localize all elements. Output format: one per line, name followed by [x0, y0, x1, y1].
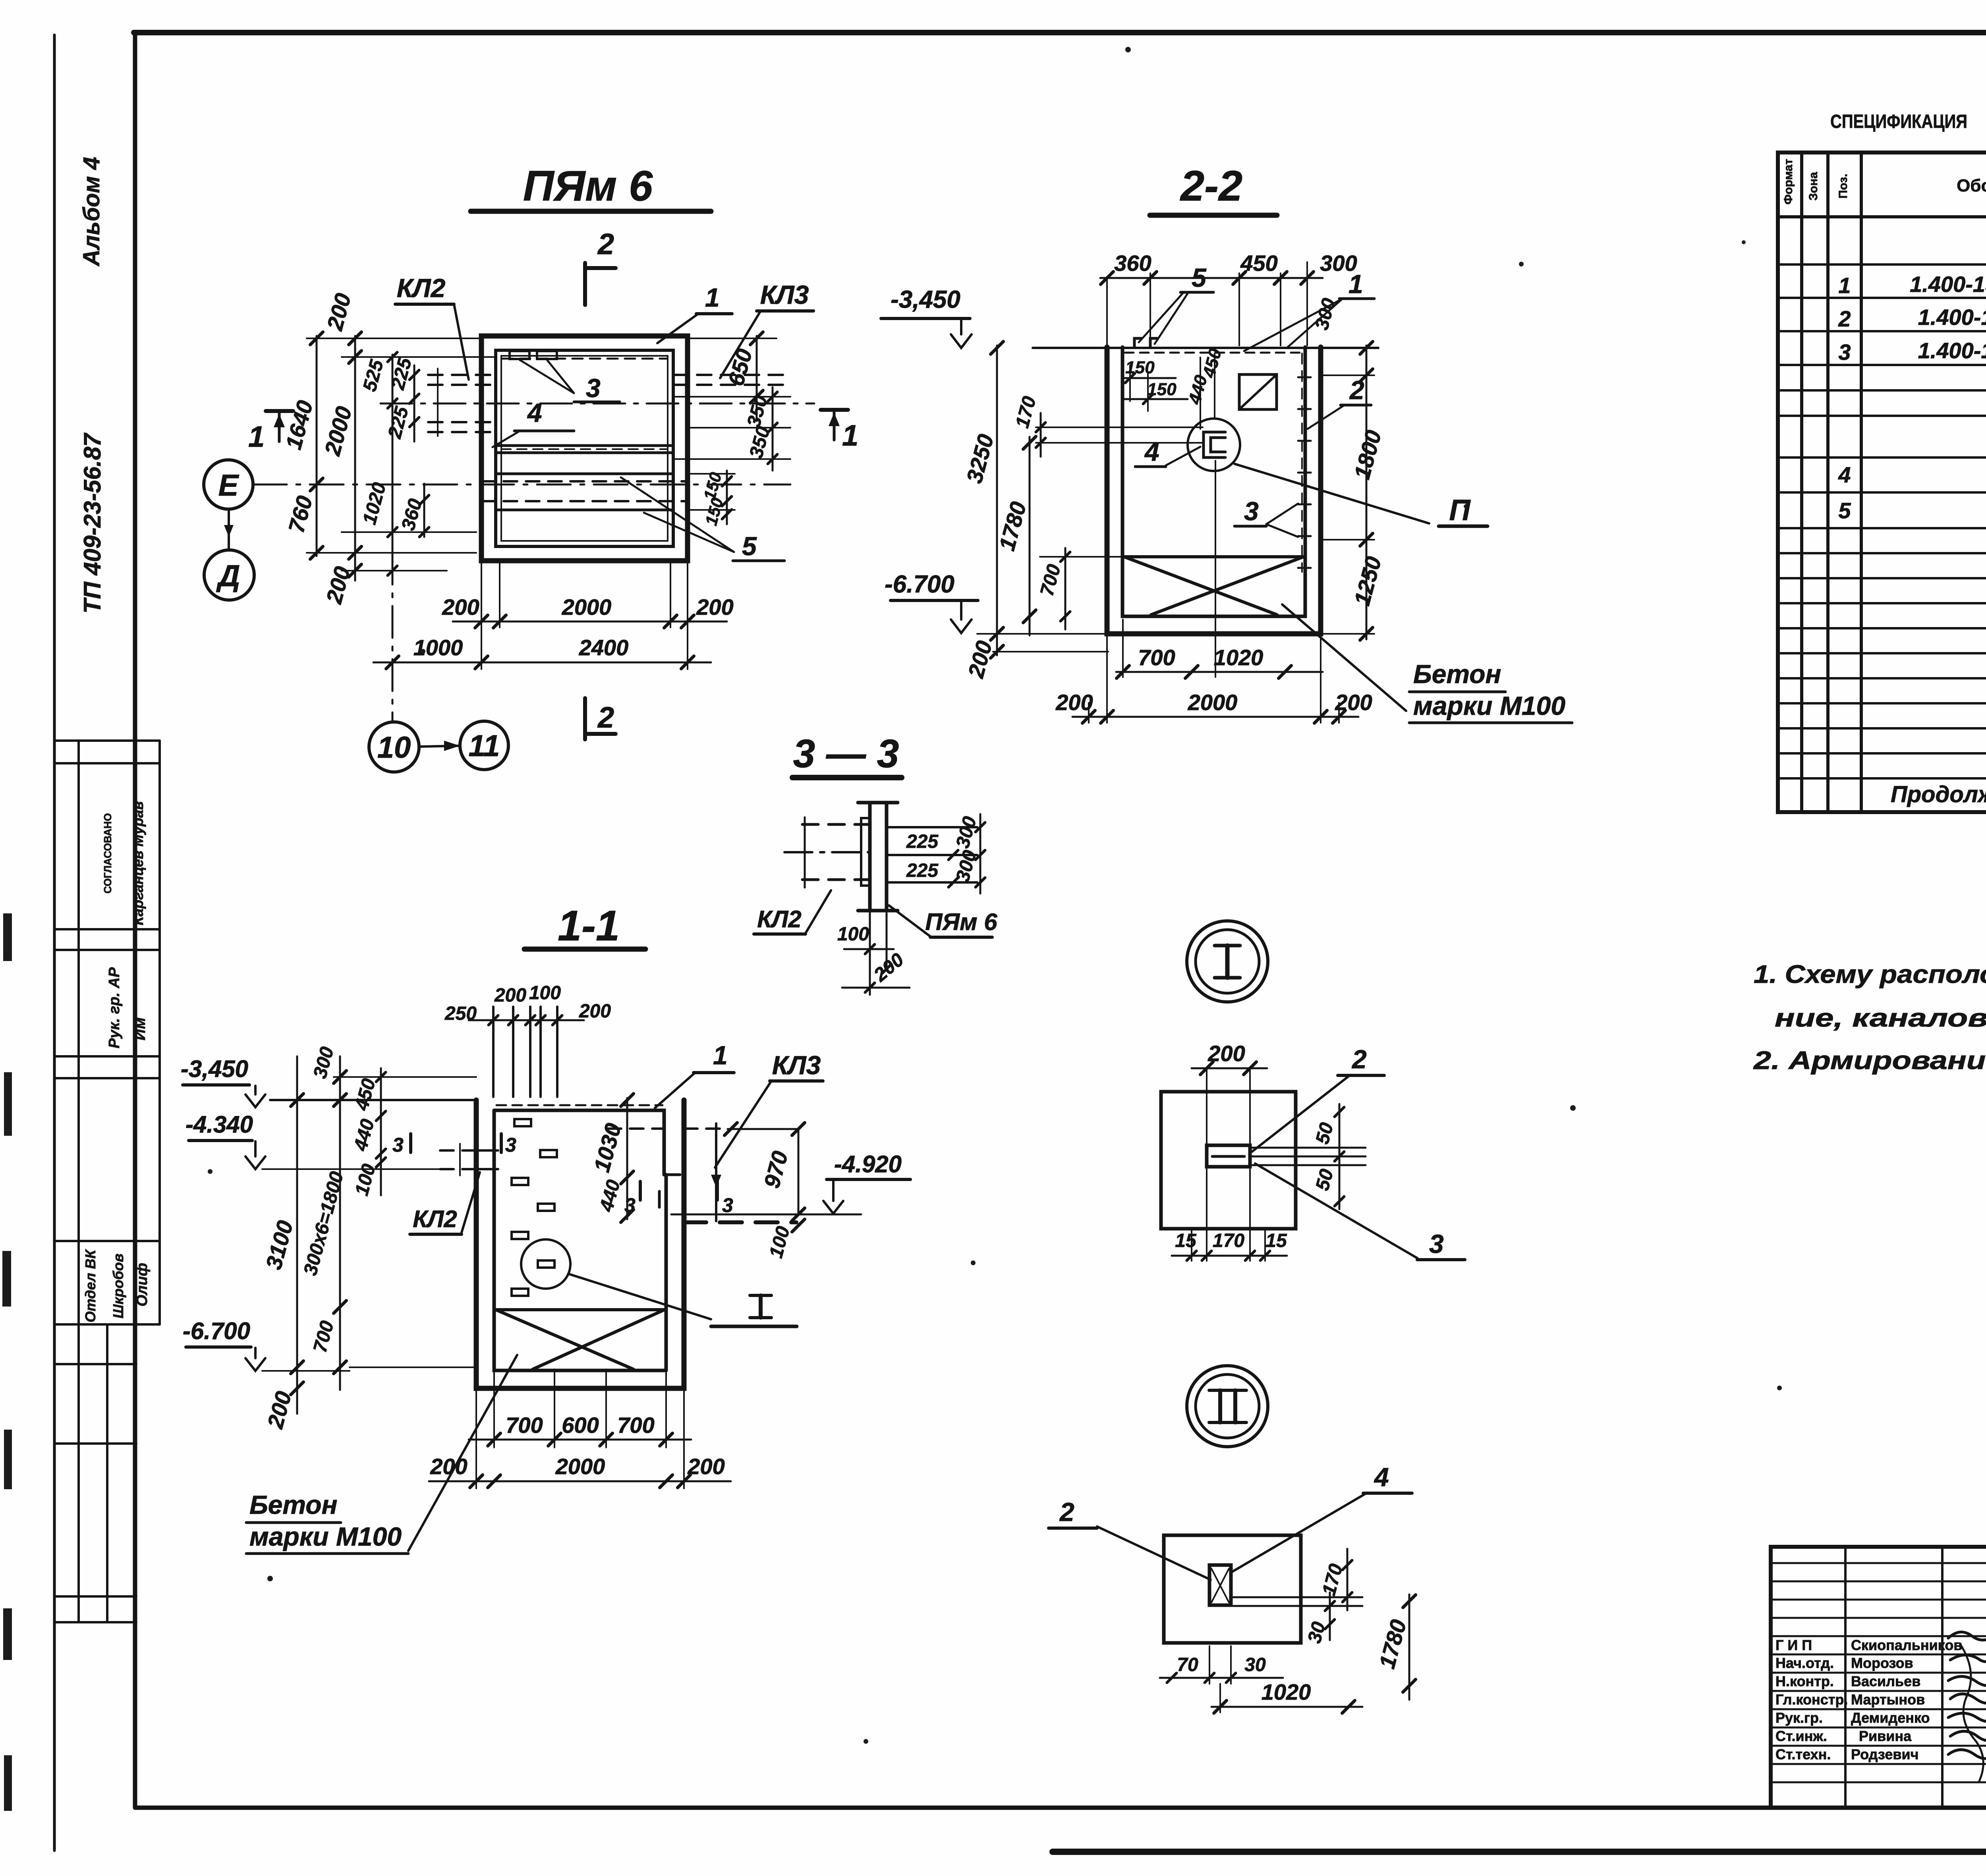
- plan inner dim chain 525/1020: [392, 355, 394, 574]
- plan bottom dim line 1: [453, 621, 727, 623]
- bottom dims 70/30 detail II: [1160, 1677, 1283, 1679]
- svg-text:5: 5: [742, 531, 757, 561]
- svg-text:1640: 1640: [281, 398, 318, 452]
- svg-text:2: 2: [1059, 1497, 1074, 1527]
- svg-text:350: 350: [746, 424, 774, 460]
- svg-text:450: 450: [351, 1076, 380, 1113]
- svg-text:100: 100: [529, 982, 561, 1004]
- svg-text:2000: 2000: [1188, 690, 1238, 715]
- detail circle around channel 4: [1188, 419, 1240, 471]
- channel axis dash-dot: [381, 403, 814, 405]
- left dim chain 1780: [1029, 437, 1031, 635]
- svg-text:200: 200: [430, 1454, 467, 1479]
- svg-text:2: 2: [1838, 306, 1851, 331]
- svg-text:1.400-15 В.1 120: 1.400-15 В.1 120: [1918, 305, 1986, 330]
- svg-text:200: 200: [1335, 690, 1372, 715]
- plan right dims 350 350: [772, 387, 774, 471]
- svg-text:2-2: 2-2: [1180, 162, 1242, 210]
- left dim chain 450/440/100: [380, 1068, 382, 1195]
- plan inner dim chain 225/225: [413, 365, 415, 442]
- embedded plate hole with diagonal: [1239, 374, 1277, 409]
- section mark 2 bottom: [583, 698, 587, 739]
- svg-text:200: 200: [322, 291, 355, 334]
- section mark 2 top: [583, 263, 587, 305]
- scan specks: [1125, 47, 1131, 52]
- 3-3 bottom dim 100: [869, 911, 871, 995]
- svg-text:170: 170: [1213, 1230, 1244, 1251]
- svg-text:Скиопальников: Скиопальников: [1851, 1637, 1962, 1653]
- svg-text:1-1: 1-1: [558, 901, 620, 950]
- svg-text:170: 170: [1318, 1561, 1347, 1598]
- 3-3 right dim chain 300/300: [979, 814, 981, 894]
- section mark 3 lower left: [639, 1181, 642, 1200]
- svg-text:1: 1: [248, 420, 265, 453]
- svg-text:200: 200: [321, 564, 355, 607]
- dim 100 below: [792, 1219, 805, 1232]
- 3-3 left end ticks: [804, 817, 806, 888]
- left dim chain 3250: [996, 345, 998, 655]
- svg-text:5: 5: [1838, 498, 1851, 523]
- svg-text:700: 700: [1138, 645, 1175, 670]
- svg-text:15: 15: [1265, 1230, 1287, 1251]
- svg-text:700: 700: [617, 1413, 654, 1438]
- svg-text:-3,450: -3,450: [181, 1056, 248, 1082]
- title block outer: [1771, 1547, 1986, 1808]
- rebar dowel lines top: [493, 1007, 557, 1097]
- svg-text:Бетон: Бетон: [1413, 659, 1501, 689]
- approval stamp table left margin: [56, 741, 160, 1622]
- svg-text:200: 200: [870, 949, 908, 986]
- svg-text:2: 2: [1351, 1044, 1367, 1074]
- detail II square: [1164, 1535, 1301, 1643]
- svg-text:50: 50: [1312, 1167, 1338, 1193]
- svg-text:ПЯм 6: ПЯм 6: [523, 162, 653, 210]
- svg-text:Карганцев Мурав: Карганцев Мурав: [130, 801, 146, 925]
- dim 1780 detail II: [1408, 1594, 1410, 1700]
- plan lower band channel 5 lines: [496, 473, 673, 475]
- svg-text:200: 200: [1207, 1041, 1245, 1066]
- svg-text:Н.контр.: Н.контр.: [1775, 1673, 1834, 1689]
- leader to label I: [569, 1274, 711, 1319]
- svg-text:2400: 2400: [579, 635, 629, 660]
- axis connector line: [228, 509, 230, 550]
- bottom extension lines 1-1: [476, 1369, 684, 1488]
- personnel column lines: [1844, 1547, 1847, 1808]
- 3-3 channel vertical member: [868, 803, 872, 911]
- svg-text:10: 10: [377, 731, 411, 764]
- svg-text:марки М100: марки М100: [1413, 691, 1565, 720]
- axis circle 10: [369, 722, 419, 772]
- svg-text:СОГЛАСОВАНО: СОГЛАСОВАНО: [102, 813, 114, 894]
- embedded plate 3 right: [537, 351, 557, 359]
- right wall inner joint: [664, 1173, 680, 1176]
- section mark 1 right: [821, 408, 848, 412]
- svg-text:150: 150: [1147, 380, 1177, 399]
- sheet frame left border: [133, 33, 137, 1808]
- svg-text:2: 2: [597, 701, 614, 734]
- svg-text:440: 440: [350, 1117, 379, 1153]
- svg-text:КЛ2: КЛ2: [397, 273, 446, 303]
- svg-text:Продолжение см. на: Продолжение см. на: [1891, 782, 1986, 807]
- dims 50 50 detail I: [1339, 1104, 1341, 1209]
- svg-text:300: 300: [309, 1044, 338, 1081]
- svg-text:ние, каналов, приямков см. на: ние, каналов, приямков см. на листе 35: [1775, 1004, 1986, 1032]
- section mark 3 upper left: [409, 1134, 412, 1152]
- channel end hooks on top: [1134, 338, 1142, 347]
- svg-text:Родзевич: Родзевич: [1851, 1746, 1919, 1762]
- dim 170 extension lines: [1036, 427, 1203, 428]
- dim 170 detail II: [1347, 1549, 1348, 1610]
- svg-text:1: 1: [713, 1040, 728, 1070]
- bottom dim line 200/2000/200 1-1: [429, 1480, 731, 1482]
- wall niche at КЛ2: [476, 1150, 494, 1169]
- svg-text:600: 600: [562, 1413, 599, 1438]
- spec row lines: [1778, 264, 1986, 778]
- detail I slot: [1207, 1145, 1250, 1167]
- svg-text:-3,450: -3,450: [891, 286, 960, 313]
- svg-text:200: 200: [696, 594, 733, 620]
- plan bottom extension lines: [481, 561, 482, 669]
- svg-text:Формат: Формат: [1782, 159, 1795, 205]
- svg-text:760: 760: [284, 493, 317, 536]
- svg-text:Рук. гр. АР: Рук. гр. АР: [106, 967, 123, 1048]
- axis circle Д: [204, 550, 254, 600]
- rebar dim line: [469, 1019, 584, 1021]
- top band dashed row 1-1: [496, 1104, 663, 1106]
- svg-text:КЛ3: КЛ3: [772, 1050, 821, 1080]
- svg-text:2000: 2000: [319, 404, 356, 459]
- КЛ2 dashed entering left wall: [440, 1149, 498, 1152]
- svg-text:П: П: [1449, 494, 1471, 527]
- svg-text:200: 200: [963, 638, 997, 681]
- detail I badge circles: [1187, 921, 1268, 1002]
- label I roman: [759, 1295, 763, 1318]
- detail circle I on plate: [521, 1239, 570, 1289]
- embedded plates column 1-1: [512, 1119, 557, 1296]
- anchor ticks inner right wall: [1298, 377, 1311, 568]
- column axis line from circle 10: [392, 553, 394, 722]
- bottom dim 1020 detail II: [1211, 1706, 1362, 1708]
- dim 700 chain: [1064, 548, 1066, 629]
- svg-text:-4.920: -4.920: [834, 1151, 902, 1177]
- section mark 3 upper right: [500, 1134, 503, 1152]
- КЛ2 dashed channel lines left: [428, 374, 496, 376]
- svg-text:2000: 2000: [562, 594, 612, 620]
- svg-text:Мартынов: Мартынов: [1851, 1691, 1925, 1708]
- svg-text:50: 50: [1312, 1120, 1338, 1146]
- svg-text:КЛ3: КЛ3: [760, 280, 809, 309]
- right dim chain 1800/1250: [1366, 345, 1368, 639]
- bottom dim line 200/2000/200: [1072, 716, 1358, 718]
- ground level line 2-2: [1033, 347, 1378, 349]
- plan right dims 150 150: [726, 471, 728, 524]
- svg-text:3: 3: [722, 1194, 733, 1216]
- plan left extension lines: [307, 338, 496, 571]
- left extension lines 1-1: [262, 1077, 476, 1371]
- svg-text:1800: 1800: [1349, 428, 1386, 482]
- svg-text:3: 3: [586, 373, 601, 403]
- section 2-2 U-wall outline: [1107, 347, 1321, 634]
- КЛ3 dashed channel lines right: [673, 374, 792, 376]
- svg-text:-6.700: -6.700: [183, 1318, 250, 1344]
- thin level line -4.920: [671, 1214, 861, 1216]
- axis circle 11: [460, 721, 508, 770]
- svg-text:Нач.отд.: Нач.отд.: [1775, 1655, 1834, 1671]
- spec header bottom: [1778, 215, 1986, 218]
- svg-text:1.400-15 В.1 810: 1.400-15 В.1 810: [1918, 338, 1986, 363]
- 3-3 bottom dim 200: [842, 987, 910, 989]
- svg-text:ПЯм 6: ПЯм 6: [925, 909, 997, 935]
- section mark 1 left: [266, 409, 293, 413]
- svg-text:Обозначение: Обозначение: [1957, 176, 1986, 195]
- svg-text:Альбом 4: Альбом 4: [79, 157, 104, 267]
- svg-text:КЛ2: КЛ2: [413, 1206, 457, 1232]
- svg-text:КЛ2: КЛ2: [757, 906, 801, 932]
- channel section symbol in circle: [1204, 432, 1225, 457]
- svg-text:-4.340: -4.340: [185, 1111, 253, 1138]
- svg-text:700: 700: [506, 1413, 543, 1438]
- plan right extension lines: [673, 338, 790, 510]
- dashed КЛ3 right of wall: [684, 1127, 728, 1130]
- dim line 970 horizontal part: [728, 1128, 798, 1130]
- svg-text:Гл.констр.: Гл.констр.: [1775, 1691, 1848, 1708]
- concrete trapezoid 2-2: [1124, 555, 1304, 558]
- svg-text:марки М100: марки М100: [249, 1522, 402, 1551]
- svg-text:225: 225: [906, 831, 939, 852]
- svg-text:200: 200: [687, 1454, 724, 1479]
- bottom dims 15/170/15 detail I: [1172, 1255, 1287, 1257]
- svg-text:3 — 3: 3 — 3: [793, 731, 899, 776]
- arrow between circles: [419, 746, 459, 747]
- plan inner lining line: [501, 356, 668, 541]
- bold dashed channel bottom -4.920: [684, 1220, 796, 1224]
- dim 170 chain: [1040, 413, 1042, 457]
- svg-text:4: 4: [1838, 462, 1851, 487]
- svg-text:1: 1: [1348, 269, 1363, 299]
- detail II badge circles: [1187, 1366, 1268, 1447]
- 3-3 small step notches: [861, 818, 870, 886]
- svg-text:450: 450: [1199, 346, 1226, 380]
- svg-text:225: 225: [384, 404, 413, 441]
- lines extending right detail II: [1233, 1596, 1362, 1598]
- top extension lines 2-2: [1107, 262, 1307, 345]
- leaders to label 5: [621, 477, 734, 552]
- svg-text:1780: 1780: [1374, 1617, 1411, 1671]
- svg-text:Ривина: Ривина: [1859, 1728, 1912, 1744]
- dashed КЛ3 inside cavity: [608, 1127, 663, 1130]
- svg-text:ТП 409-23-56.87: ТП 409-23-56.87: [79, 432, 106, 614]
- svg-text:200: 200: [579, 1001, 611, 1022]
- svg-text:30: 30: [1244, 1654, 1266, 1675]
- plan right dim 650: [756, 336, 758, 421]
- svg-text:4: 4: [1144, 437, 1159, 466]
- svg-text:Им: Им: [131, 1017, 149, 1040]
- svg-text:3250: 3250: [962, 432, 999, 486]
- svg-text:3: 3: [1838, 340, 1851, 365]
- svg-text:225: 225: [906, 860, 939, 881]
- svg-text:Олиф: Олиф: [134, 1263, 151, 1307]
- plate lines extending right: [1250, 1147, 1366, 1149]
- svg-text:970: 970: [759, 1148, 793, 1191]
- svg-text:1: 1: [705, 283, 720, 312]
- svg-text:650: 650: [723, 346, 757, 389]
- plan dim 360: [423, 484, 425, 537]
- svg-text:250: 250: [444, 1003, 477, 1024]
- detail I square: [1161, 1092, 1296, 1229]
- top channel dashed row 2-2: [1125, 352, 1304, 354]
- dim 200 above detail I: [1192, 1067, 1267, 1069]
- svg-text:200: 200: [262, 1389, 296, 1432]
- signatures squiggles: [1948, 1632, 1986, 1759]
- embedded plate 3 left: [510, 351, 529, 359]
- svg-text:4: 4: [527, 398, 542, 427]
- roman numeral II: [1218, 1390, 1222, 1422]
- svg-text:1020: 1020: [1214, 645, 1263, 670]
- svg-text:1030: 1030: [589, 1121, 626, 1175]
- mark 3 inside: [658, 1191, 661, 1207]
- svg-text:360: 360: [1114, 251, 1151, 276]
- svg-text:Д: Д: [216, 559, 240, 593]
- svg-text:3100: 3100: [261, 1218, 298, 1272]
- svg-text:1. Схему расположения фундамен: 1. Схему расположения фундаментов под об…: [1754, 960, 1986, 988]
- axis Е dash-dot line: [253, 484, 790, 486]
- svg-text:1020: 1020: [1262, 1679, 1311, 1704]
- 3-3 dashed lines left: [802, 823, 870, 826]
- channel centreline vertical: [1215, 461, 1216, 677]
- sheet frame top border: [134, 30, 1986, 35]
- svg-text:Демиденко: Демиденко: [1851, 1710, 1930, 1726]
- svg-text:Е: Е: [218, 469, 240, 502]
- specification table outer: [1778, 152, 1986, 812]
- left dim chain 300x6: [339, 1056, 341, 1390]
- svg-text:3: 3: [1244, 496, 1259, 526]
- svg-text:Ст.инж.: Ст.инж.: [1775, 1728, 1827, 1744]
- svg-text:Шкробов: Шкробов: [110, 1254, 126, 1319]
- section mark 3 arrow line: [715, 1123, 717, 1221]
- svg-text:1250: 1250: [1349, 554, 1386, 608]
- svg-text:300: 300: [1311, 296, 1340, 332]
- svg-text:1.400-15 В.1 550-03: 1.400-15 В.1 550-03: [1910, 272, 1986, 297]
- top dim line 2-2: [1100, 277, 1323, 279]
- svg-text:2. Армирование приямка ПЯмб см: 2. Армирование приямка ПЯмб см. на листе…: [1753, 1046, 1986, 1075]
- bottom dim line 700/600/700: [469, 1439, 691, 1441]
- 3-3 solid lines right: [887, 826, 977, 828]
- detail II slot vertical: [1209, 1565, 1231, 1605]
- svg-text:1020: 1020: [359, 480, 390, 527]
- svg-text:Отдел ВК: Отдел ВК: [82, 1249, 99, 1322]
- inner wall dashed line 2-2: [1301, 353, 1303, 572]
- plan left dim chain 1: [316, 336, 318, 556]
- svg-text:360: 360: [398, 496, 426, 533]
- svg-text:100: 100: [837, 924, 869, 945]
- outer paper edge line left: [53, 35, 56, 1851]
- svg-text:350: 350: [743, 393, 772, 429]
- svg-text:1780: 1780: [994, 499, 1031, 554]
- svg-text:450: 450: [1240, 251, 1277, 276]
- left dim chain 3100/200: [296, 1056, 298, 1414]
- svg-text:2000: 2000: [555, 1454, 605, 1479]
- svg-text:СПЕЦИФИКАЦИЯ: СПЕЦИФИКАЦИЯ: [1830, 111, 1967, 132]
- svg-text:100: 100: [765, 1224, 794, 1260]
- svg-text:11: 11: [469, 729, 500, 763]
- leader from circle to П: [1234, 464, 1429, 523]
- concrete trapezoid 1-1: [496, 1308, 665, 1311]
- svg-text:200: 200: [442, 594, 479, 620]
- svg-text:440: 440: [1185, 373, 1211, 407]
- svg-text:525: 525: [359, 357, 388, 394]
- svg-text:440: 440: [596, 1177, 624, 1214]
- svg-text:700: 700: [309, 1318, 338, 1355]
- plan left dim chain 2: [354, 336, 356, 581]
- spec vertical lines: [1802, 152, 1986, 812]
- dim chain 970 vertical: [798, 1129, 800, 1214]
- svg-text:Бетон: Бетон: [249, 1490, 337, 1519]
- svg-text:-6.700: -6.700: [885, 571, 954, 598]
- svg-text:3: 3: [392, 1134, 404, 1156]
- ground level line 1-1: [270, 1099, 476, 1101]
- dim 30 detail II: [1329, 1592, 1331, 1640]
- roman numeral I: [1225, 946, 1230, 978]
- svg-text:Рук.гр.: Рук.гр.: [1775, 1710, 1823, 1726]
- bottom slab extension left: [977, 633, 1107, 635]
- svg-text:2: 2: [597, 228, 614, 261]
- leader from 4 to band: [493, 431, 520, 447]
- vertical end tick of channel lines: [437, 369, 439, 436]
- svg-text:Г И П: Г И П: [1775, 1637, 1812, 1653]
- svg-text:15: 15: [1175, 1230, 1197, 1251]
- svg-text:Зона: Зона: [1807, 172, 1820, 201]
- svg-text:Морозов: Морозов: [1851, 1655, 1913, 1671]
- svg-text:Ст.техн.: Ст.техн.: [1775, 1746, 1831, 1762]
- leader to Бетон label: [1282, 604, 1406, 711]
- svg-text:200: 200: [1055, 690, 1093, 715]
- svg-text:150: 150: [701, 496, 727, 527]
- personnel row lines: [1771, 1563, 1986, 1782]
- plan middle band channel 4 lines: [496, 444, 673, 447]
- svg-text:170: 170: [1012, 394, 1040, 430]
- svg-text:1: 1: [1838, 273, 1851, 298]
- inner dims 440 450 rotated 2-2: [1200, 357, 1201, 429]
- section 1-1 outline: [476, 1100, 684, 1388]
- section mark 3 lower right: [716, 1181, 719, 1200]
- leader Бетон 1-1: [408, 1355, 517, 1551]
- inner dims 150 150 2-2: [1129, 365, 1131, 401]
- svg-text:4: 4: [1374, 1462, 1389, 1492]
- svg-text:70: 70: [1177, 1654, 1198, 1675]
- plan top embedded channel dashed row: [502, 358, 667, 360]
- svg-text:300: 300: [952, 814, 981, 850]
- trapezoid top extension: [1040, 556, 1124, 558]
- sheet frame bottom border: [135, 1806, 1986, 1810]
- plan outer wall rectangle: [481, 336, 688, 561]
- svg-text:Васильев: Васильев: [1851, 1673, 1920, 1689]
- leader lines to label 3: [520, 360, 574, 393]
- bottom outside scan line: [1053, 1849, 1986, 1855]
- svg-text:Поз.: Поз.: [1837, 174, 1850, 199]
- svg-text:1000: 1000: [413, 635, 463, 660]
- svg-text:150: 150: [1125, 358, 1155, 377]
- svg-text:3: 3: [1429, 1229, 1444, 1258]
- plan bottom dim line 2: [373, 662, 711, 664]
- svg-text:700: 700: [1036, 562, 1065, 598]
- svg-text:3: 3: [505, 1134, 516, 1156]
- dim chain 1030/440 inside: [626, 1098, 628, 1219]
- svg-text:30: 30: [1304, 1619, 1330, 1646]
- svg-text:1: 1: [842, 419, 858, 452]
- bottom dim line 700/1020: [1116, 671, 1323, 673]
- axis circle Е: [204, 460, 253, 509]
- svg-text:100: 100: [351, 1162, 380, 1198]
